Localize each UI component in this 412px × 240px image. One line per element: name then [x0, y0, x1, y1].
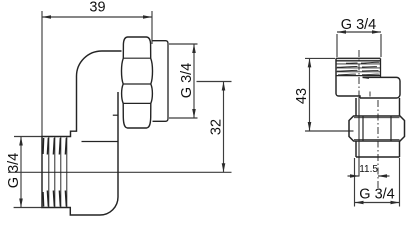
svg-text:G 3/4: G 3/4 [341, 17, 376, 33]
svg-text:G 3/4: G 3/4 [6, 153, 22, 188]
svg-text:43: 43 [294, 88, 310, 104]
svg-text:32: 32 [208, 119, 224, 135]
svg-text:11.5: 11.5 [359, 164, 378, 175]
svg-text:G 3/4: G 3/4 [179, 63, 195, 98]
svg-text:G 3/4: G 3/4 [359, 187, 394, 203]
svg-text:39: 39 [89, 0, 105, 16]
